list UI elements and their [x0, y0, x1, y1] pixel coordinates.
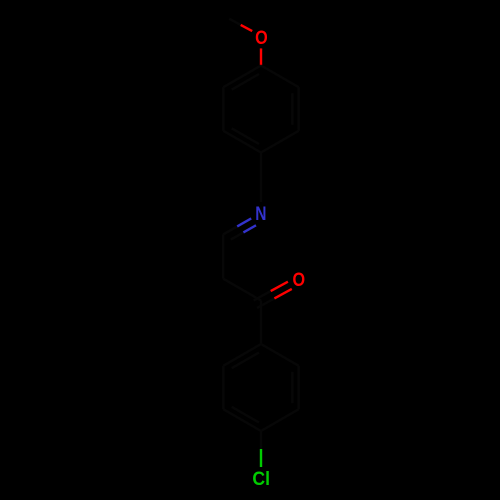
benzene ring 2 aromatic inner lines	[232, 353, 293, 423]
bond ring2-Cl (carbon half, dark)	[260, 431, 262, 449]
bond CH3-O methyl (carbon half, dark)	[229, 19, 241, 25]
bond O-C1 to ring 1 (red)	[260, 48, 262, 65]
imine C=N double bond main line (carbon half, dark)	[223, 226, 237, 234]
benzene ring 2 (4-chlorophenyl) outer hexagon	[223, 344, 298, 431]
benzene ring 1 aromatic inner lines	[232, 74, 293, 144]
bond ring2-Cl (chlorine half, green)	[260, 449, 262, 467]
svg-text:Cl: Cl	[252, 469, 270, 490]
benzene ring 1 (4-methoxyphenyl) outer hexagon	[223, 66, 298, 153]
svg-text:N: N	[255, 204, 266, 225]
bond carbonyl C to ring 2 (dark)	[260, 301, 262, 345]
bond CH3-O methyl (oxygen half, red)	[241, 25, 253, 31]
svg-text:O: O	[293, 270, 306, 291]
atom label N (imine nitrogen)	[255, 204, 266, 225]
bond C-C chain diagonal to carbonyl (dark)	[223, 279, 261, 301]
carbonyl C=O lower line (carbon half, dark)	[257, 298, 274, 308]
bond ring1-N (dark)	[260, 153, 262, 203]
atom label O (methoxy oxygen)	[255, 28, 268, 49]
carbonyl C=O upper line (oxygen half, red)	[271, 282, 288, 291]
imine C=N double bond second line (nitrogen half, blue)	[243, 225, 256, 232]
imine C=N double bond main line (nitrogen half, blue)	[237, 218, 251, 226]
carbonyl C=O upper line (carbon half, dark)	[254, 291, 271, 300]
atom label Cl (chlorine)	[252, 469, 270, 490]
bond C-C chain vertical (dark)	[222, 234, 224, 278]
imine C=N double bond second line (carbon half, dark)	[231, 232, 244, 239]
svg-text:O: O	[255, 28, 268, 49]
carbonyl C=O lower line (oxygen half, red)	[274, 289, 291, 299]
atom label O (carbonyl oxygen)	[293, 270, 306, 291]
